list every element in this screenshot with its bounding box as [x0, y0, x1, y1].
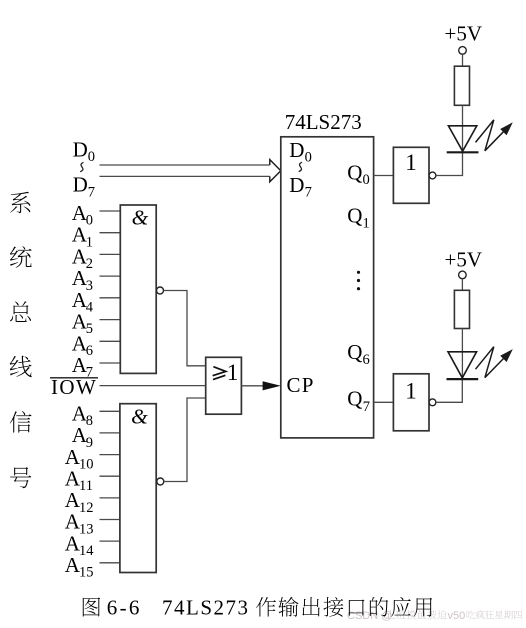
wire: +5V terminal to resistor R1 [462, 54, 464, 66]
svg-text:10: 10 [79, 457, 94, 473]
svg-text:D: D [73, 137, 88, 161]
svg-text:11: 11 [79, 478, 93, 494]
svg-text:0: 0 [363, 172, 370, 188]
svg-text:6-6: 6-6 [107, 595, 142, 619]
svg-text:7: 7 [363, 399, 370, 415]
svg-text:D: D [289, 173, 304, 197]
AND gate U3 (&, address decoder A8-A15) [120, 404, 156, 573]
wire: IOW to OR gate input 2 [100, 385, 206, 387]
wire: U6 output to LED D2 cathode [436, 379, 462, 402]
caption: 图 6-6 74LS273 作输出接口的应用 [83, 597, 100, 616]
wire: U3 output to OR gate input 3 [164, 398, 206, 482]
svg-text:7: 7 [88, 184, 95, 200]
wire: OR gate output to CP (with solid arrowhead) [241, 385, 266, 387]
svg-text:9: 9 [86, 435, 93, 451]
AND gate U2 (&, address decoder A0-A7) [120, 205, 156, 373]
svg-text:15: 15 [79, 565, 94, 581]
inverter bubble on U5 output [429, 172, 436, 179]
svg-text:CP: CP [287, 373, 315, 397]
terminal circle (bottom +5V) [459, 271, 467, 279]
wire: Q7 to buffer U6 [374, 401, 394, 403]
svg-text:74LS273: 74LS273 [285, 110, 362, 134]
LED D1 light-emission zigzag arrow [476, 120, 504, 151]
svg-text:CSDN @: CSDN @ [347, 610, 392, 622]
wire: U2 output to OR gate input 1 [164, 291, 206, 366]
svg-text:14: 14 [79, 543, 94, 559]
svg-text:Q: Q [347, 204, 362, 228]
terminal circle (top +5V) [459, 47, 467, 55]
svg-text:7: 7 [305, 185, 312, 201]
wire: +5V terminal to resistor R2 [461, 279, 463, 291]
svg-text:+5V: +5V [445, 21, 483, 45]
label: 系统总线信号 (system bus signals) [10, 192, 30, 213]
svg-text:v50: v50 [448, 610, 466, 622]
svg-text:1: 1 [405, 150, 417, 175]
wire: Q0 to buffer U5 [374, 175, 394, 177]
resistor R1 [454, 66, 469, 105]
LED D1 (triangle + cathode bar) [448, 126, 476, 151]
wire: R2 to LED D2 anode [461, 329, 463, 380]
svg-text:0: 0 [305, 150, 312, 166]
ellipsis dots (Q2..Q5 omitted) [357, 271, 360, 274]
svg-text:D: D [73, 173, 88, 197]
svg-text:4: 4 [86, 300, 94, 316]
svg-text:D: D [289, 138, 304, 162]
svg-text:12: 12 [79, 500, 94, 516]
svg-text:1: 1 [405, 379, 417, 404]
svg-text:0: 0 [88, 149, 95, 165]
svg-text:Q: Q [347, 160, 362, 184]
inverting buffer U5 (1) [393, 147, 429, 203]
wire: U5 output to LED D1 cathode [436, 152, 463, 175]
OR gate U4 (>=1) [206, 357, 242, 414]
svg-text:1: 1 [363, 215, 370, 231]
svg-text:Q: Q [347, 387, 362, 411]
inverting buffer U6 (1) [393, 374, 429, 431]
inverter bubble on U6 output [429, 399, 436, 406]
inverter bubble on U2 output [157, 287, 164, 294]
svg-text:6: 6 [363, 352, 370, 368]
svg-text:&: & [132, 205, 149, 229]
wire: R1 to LED D1 anode [462, 105, 464, 152]
svg-text:+5V: +5V [445, 247, 483, 271]
LED D2 light-emission zigzag arrow [476, 347, 504, 378]
resistor R2 [454, 290, 469, 328]
inverter bubble on U3 output [157, 478, 164, 485]
bus arrowhead (hollow, into 74LS273) [270, 160, 281, 182]
svg-text:1: 1 [227, 360, 239, 385]
svg-text:&: & [131, 405, 148, 429]
LED D2 (triangle + cathode bar) [448, 352, 477, 378]
svg-text:13: 13 [79, 521, 94, 537]
svg-text:74LS273: 74LS273 [162, 595, 250, 619]
wire: data bus D0~D7 (double line) [100, 165, 270, 176]
IC U1: 74LS273 octal D flip-flop [281, 137, 374, 438]
svg-text:Q: Q [347, 340, 362, 364]
